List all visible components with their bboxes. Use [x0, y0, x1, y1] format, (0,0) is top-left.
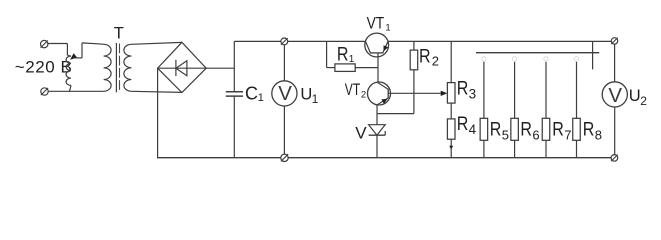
svg-text:U: U [629, 87, 641, 105]
svg-text:6: 6 [532, 128, 539, 143]
svg-text:1: 1 [258, 92, 264, 104]
svg-text:8: 8 [595, 128, 602, 143]
svg-text:~220 В: ~220 В [15, 58, 73, 77]
svg-text:1: 1 [385, 22, 390, 33]
svg-text:U: U [300, 85, 312, 103]
svg-text:2: 2 [361, 90, 366, 101]
svg-text:R: R [552, 119, 564, 140]
svg-text:7: 7 [564, 128, 571, 143]
svg-text:R: R [490, 119, 502, 140]
svg-text:V: V [608, 84, 622, 107]
svg-text:2: 2 [432, 53, 439, 68]
svg-text:1: 1 [312, 92, 319, 106]
svg-text:R: R [457, 78, 469, 99]
svg-text:R: R [520, 119, 532, 140]
svg-text:C: C [245, 83, 258, 103]
svg-text:V: V [278, 82, 292, 105]
svg-text:VT: VT [345, 81, 360, 99]
svg-text:V: V [355, 123, 367, 142]
svg-text:3: 3 [469, 86, 477, 101]
svg-text:VT: VT [367, 15, 385, 33]
svg-text:5: 5 [502, 128, 509, 143]
svg-text:2: 2 [640, 94, 647, 108]
svg-text:4: 4 [469, 122, 477, 137]
svg-text:R: R [419, 47, 431, 68]
svg-text:R: R [583, 119, 595, 140]
svg-text:1: 1 [349, 54, 355, 65]
svg-text:R: R [337, 45, 349, 66]
svg-text:T: T [114, 25, 124, 43]
svg-text:R: R [457, 114, 469, 135]
